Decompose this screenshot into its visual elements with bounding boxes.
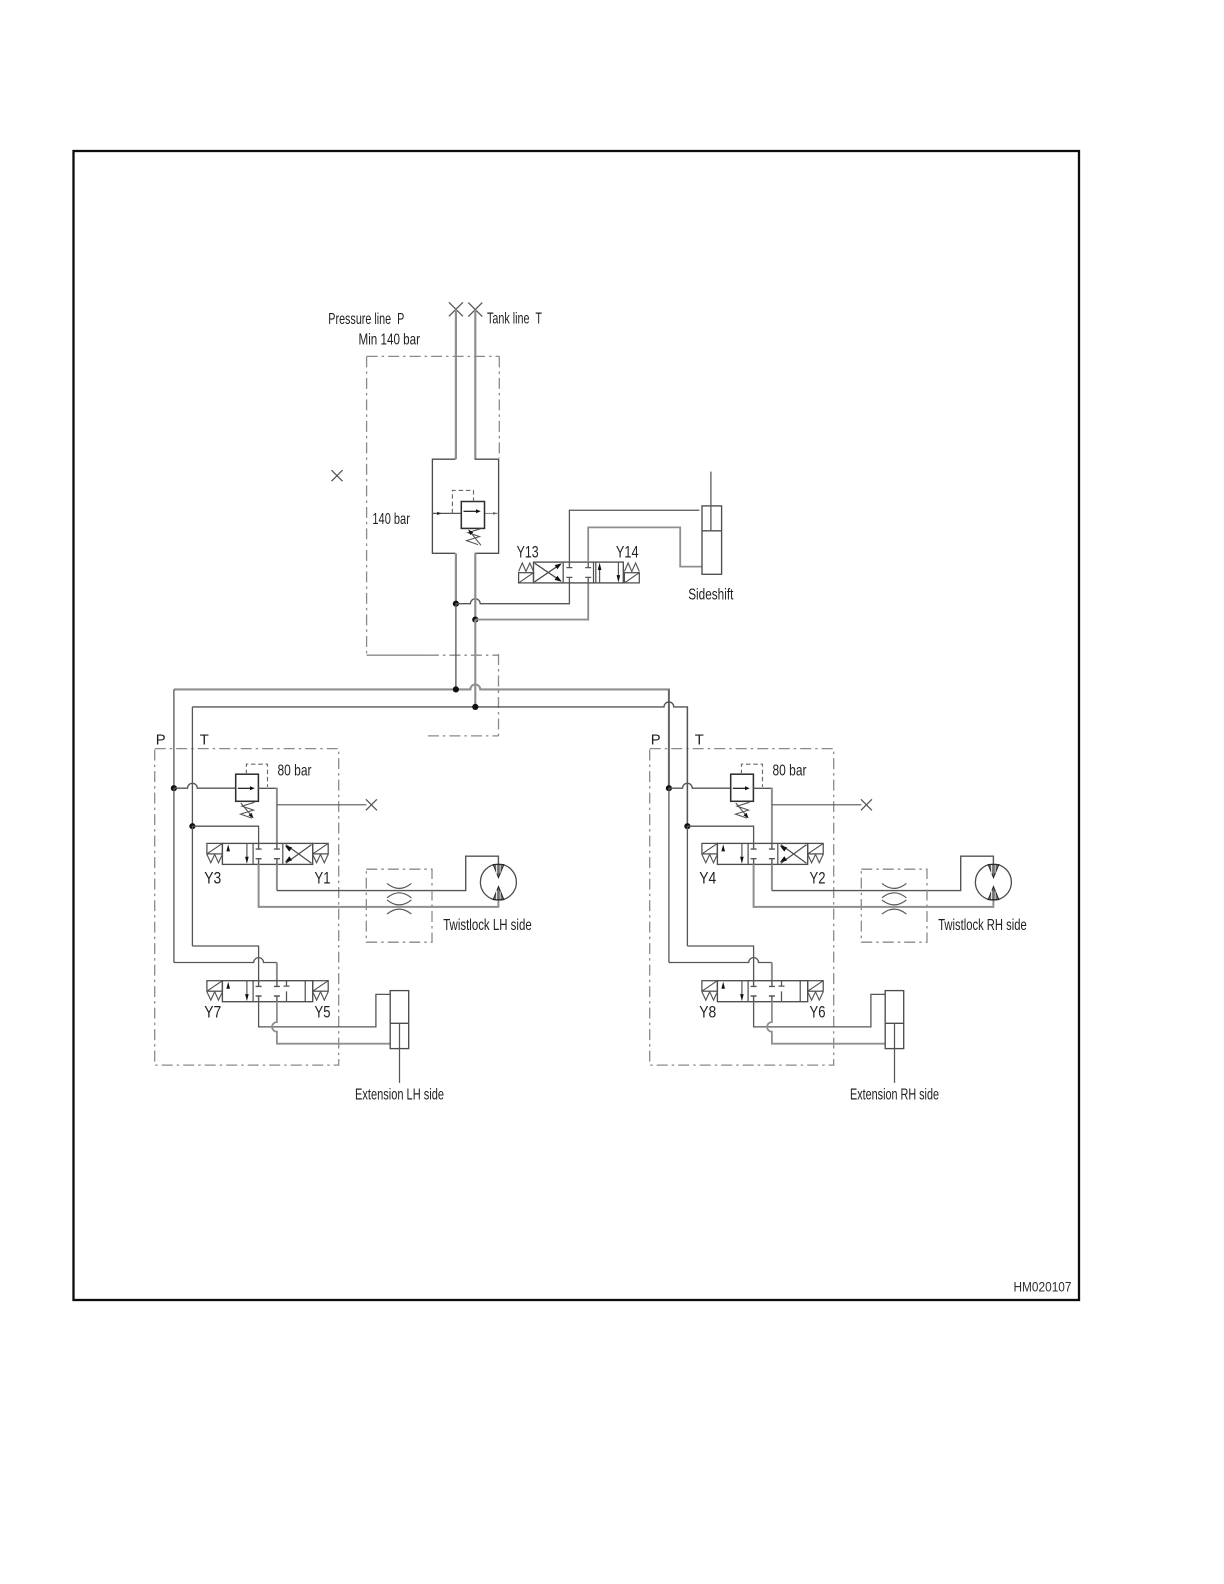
- svg-text:140 bar: 140 bar: [372, 511, 410, 528]
- wire lower valve port to cylinder (upper): [259, 994, 391, 1027]
- valve right section port marks: [284, 981, 290, 1002]
- label Pressure line P: [328, 311, 404, 328]
- extension cylinder piston: [390, 1022, 409, 1024]
- valve divider left: [747, 981, 749, 1002]
- svg-text:Extension LH side: Extension LH side: [355, 1086, 444, 1103]
- svg-text:80 bar: 80 bar: [278, 763, 312, 780]
- orifice on upper line: [882, 883, 906, 897]
- wire P drop into lower valve: [771, 963, 773, 981]
- node T branch: [684, 823, 690, 829]
- pressure relief valve 80 bar square (twistlock LH): [236, 774, 259, 801]
- wire valve to motor (upper): [277, 856, 499, 890]
- Y13/Y14 right box straight flows: [598, 562, 620, 583]
- valve centre box blocked ports: [751, 843, 775, 864]
- wire T down to distribution bus: [474, 620, 476, 707]
- node P branch: [171, 785, 177, 791]
- wire pressure line P down to block: [455, 309, 457, 459]
- label Y8: [699, 1004, 716, 1022]
- solenoid valve body (twistlock): [222, 843, 312, 864]
- wire T to Y13 valve: [475, 583, 588, 620]
- manifold block outline with top/bottom notches: [432, 459, 498, 553]
- relief valve flow arrow: [238, 786, 255, 790]
- valve divider left: [252, 843, 254, 864]
- extension cylinder piston: [885, 1022, 904, 1024]
- wire lower valve port to cylinder (lower, hop around crossing): [767, 1002, 885, 1044]
- valve V1 pilot line (dashed): [452, 490, 473, 513]
- relief valve spring (adjustable): [241, 802, 255, 818]
- valve left box flow arrows: [226, 981, 248, 1001]
- valve centre box blocked ports: [751, 981, 775, 1002]
- svg-text:Y3: Y3: [204, 870, 221, 888]
- wire T branch to valve port A: [687, 826, 753, 843]
- svg-text:Y7: Y7: [204, 1004, 221, 1022]
- wire T riser lower: [686, 826, 688, 946]
- svg-text:Y6: Y6: [810, 1004, 826, 1022]
- label Y14: [616, 544, 639, 562]
- valve divider right: [799, 981, 801, 1002]
- dash-dot enclosure Min 140 bar (bottom edge solid run): [367, 654, 428, 656]
- wire P riser: [668, 689, 670, 788]
- svg-text:T: T: [695, 733, 704, 749]
- cylinder Sideshift rod: [710, 472, 712, 531]
- label Y2: [810, 870, 826, 888]
- wire valve to motor (upper): [772, 856, 994, 890]
- solenoid Y13 (spring above, coil below): [519, 563, 534, 583]
- orifice on lower line: [882, 900, 906, 914]
- capped port X mark left of block: [332, 470, 343, 481]
- relief valve flow arrow: [733, 786, 750, 790]
- dash-dot enclosure Min 140 bar (bottom edge dashed run): [428, 654, 499, 656]
- relief valve pilot line (dashed): [246, 764, 267, 787]
- wire valve to motor (lower): [754, 864, 994, 907]
- valve divider left: [252, 981, 254, 1002]
- wire T riser: [191, 707, 193, 826]
- Y13/Y14 divider double: [594, 562, 596, 583]
- svg-text:P: P: [156, 733, 166, 749]
- node on pressure bus: [453, 686, 459, 692]
- solenoid valve body (extension): [222, 981, 312, 1002]
- wire Y13 port A to sideshift cylinder: [569, 510, 699, 562]
- node on tank bus: [472, 704, 478, 710]
- dash-dot enclosure Min 140 bar (right upper edge): [498, 356, 500, 458]
- capped port X mark: [861, 799, 872, 810]
- label T (twistlock LH block): [200, 733, 209, 749]
- valve centre box blocked ports: [256, 843, 280, 864]
- valve left box flow arrows: [226, 843, 248, 863]
- label Y7: [204, 1004, 221, 1022]
- solenoid coil+spring (right): [313, 843, 329, 862]
- wire T riser lower: [191, 826, 193, 946]
- solenoid coil+spring (right): [313, 981, 329, 1000]
- Y13/Y14 left box crossed arrows: [535, 563, 562, 582]
- svg-text:Y5: Y5: [315, 1004, 331, 1022]
- wire P down to distribution bus: [455, 604, 457, 690]
- label Extension RH side: [850, 1086, 939, 1103]
- wire relief out / down to valve port B: [258, 788, 277, 844]
- cylinder Extension LH body: [390, 991, 409, 1049]
- wire P drop into lower valve: [276, 963, 278, 981]
- wire T below block: [474, 553, 476, 619]
- test line to capped port: [772, 804, 862, 806]
- svg-text:Y4: Y4: [699, 870, 716, 888]
- label P (twistlock RH block): [651, 733, 661, 749]
- cylinder Extension RH body: [885, 991, 904, 1049]
- valve right box crossed arrows: [285, 845, 312, 864]
- valve right section port marks: [779, 981, 785, 1002]
- svg-text:Twistlock LH side: Twistlock LH side: [443, 917, 532, 934]
- wire P riser lower: [668, 788, 670, 962]
- wire relief out / down to valve port B: [753, 788, 772, 844]
- svg-text:Sideshift: Sideshift: [688, 587, 734, 604]
- label Min 140 bar: [359, 331, 421, 348]
- svg-text:P: P: [651, 733, 661, 749]
- extension cylinder rod: [399, 1023, 401, 1083]
- svg-text:HM020107: HM020107: [1014, 1280, 1072, 1295]
- dash-dot enclosure step (right): [498, 654, 500, 736]
- svg-text:Tank line T: Tank line T: [487, 311, 542, 328]
- wire T to lower valve port A: [687, 946, 753, 981]
- valve left box flow arrows: [721, 843, 743, 863]
- pressure reducing valve V1 square: [461, 502, 484, 529]
- label Sideshift: [688, 587, 734, 604]
- motor flow triangle top: [988, 865, 999, 878]
- node T junction to Y13: [472, 617, 478, 623]
- extension cylinder rod: [894, 1023, 896, 1083]
- Y13/Y14 centre box blocked ports: [566, 562, 591, 583]
- drawing number HM020107: [1014, 1280, 1072, 1295]
- solenoid coil+spring (left): [702, 981, 718, 1000]
- svg-text:Y1: Y1: [315, 870, 331, 888]
- dash-dot enclosure Min 140 bar (left edge): [366, 356, 368, 655]
- svg-text:Pressure line P: Pressure line P: [328, 311, 404, 328]
- svg-text:Min 140 bar: Min 140 bar: [359, 331, 421, 348]
- valve divider right: [304, 981, 306, 1002]
- node P branch: [666, 785, 672, 791]
- solenoid coil+spring (left): [207, 981, 223, 1000]
- wire lower valve port to cylinder (upper): [754, 994, 886, 1027]
- wire P riser lower: [173, 788, 175, 962]
- Y13/Y14 divider left: [562, 562, 564, 583]
- node T branch: [189, 823, 195, 829]
- label 80 bar: [278, 763, 312, 780]
- label T (twistlock RH block): [695, 733, 704, 749]
- motor flow triangle top: [493, 865, 504, 878]
- solenoid valve body (extension): [717, 981, 807, 1002]
- dash-dot flow control box: [366, 869, 432, 942]
- solenoid coil+spring (right): [808, 981, 824, 1000]
- label Y6: [810, 1004, 826, 1022]
- wire P to Y13 valve (hops tank line): [456, 583, 570, 604]
- valve divider right: [777, 843, 779, 864]
- pressure bus P (horizontal, hops tank drop): [174, 685, 669, 789]
- wire T riser: [686, 707, 688, 826]
- orifice on upper line: [387, 883, 411, 897]
- port cap X on pressure line P: [449, 302, 463, 316]
- motor flow triangle bottom: [988, 887, 999, 900]
- solenoid coil+spring (left): [207, 843, 223, 862]
- wire P riser: [173, 689, 175, 788]
- label 140 bar: [372, 511, 410, 528]
- label Y5: [315, 1004, 331, 1022]
- wire P below block: [455, 553, 457, 603]
- valve left box flow arrows: [721, 981, 743, 1001]
- pressure relief valve 80 bar square (twistlock RH): [731, 774, 754, 801]
- wire tank line T down to block: [474, 310, 476, 460]
- svg-text:Y2: Y2: [810, 870, 826, 888]
- svg-text:80 bar: 80 bar: [773, 763, 807, 780]
- valve divider right: [282, 843, 284, 864]
- wire P to relief valve (hops T riser): [174, 783, 236, 788]
- valve V1 flow arrow: [464, 509, 481, 513]
- tank bus T (horizontal, hops pressure riser): [192, 702, 687, 826]
- label Y13: [517, 544, 539, 562]
- dash-dot enclosure Min 140 bar (top edge): [367, 355, 500, 357]
- cylinder Sideshift body: [702, 506, 722, 574]
- label Twistlock LH side: [443, 917, 532, 934]
- hydraulic motor twistlock RH: [975, 864, 1011, 900]
- wire Y14 port B to sideshift cylinder: [588, 527, 702, 566]
- solenoid Y14 (spring above, coil below): [624, 563, 639, 583]
- wire P to relief valve (hops T riser): [669, 783, 731, 788]
- orifice on lower line: [387, 900, 411, 914]
- cylinder Sideshift piston: [702, 530, 722, 532]
- wire valve to motor (lower): [259, 864, 499, 907]
- label P (twistlock LH block): [156, 733, 166, 749]
- solenoid valve body (twistlock): [717, 843, 807, 864]
- dash-dot enclosure twistlock RH control block: [650, 749, 834, 1066]
- label Y4: [699, 870, 716, 888]
- solenoid valve Y13/Y14 body: [534, 562, 624, 583]
- relief valve spring (adjustable): [736, 802, 750, 818]
- capped port X mark: [366, 799, 377, 810]
- relief valve pilot line (dashed): [741, 764, 762, 787]
- label Y3: [204, 870, 221, 888]
- solenoid coil+spring (right): [808, 843, 824, 862]
- page border frame: [74, 151, 1080, 1300]
- wire P to lower valve port B (hops T drop): [174, 958, 277, 963]
- valve divider left: [747, 843, 749, 864]
- svg-text:T: T: [200, 733, 209, 749]
- block internal line left with arrow: [432, 512, 461, 515]
- port cap X on tank line T: [468, 303, 482, 317]
- motor flow triangle bottom: [493, 887, 504, 900]
- test line to capped port: [277, 804, 367, 806]
- valve right box crossed arrows: [780, 845, 807, 864]
- label 80 bar: [773, 763, 807, 780]
- svg-text:Y13: Y13: [517, 544, 539, 562]
- wire T to lower valve port A: [192, 946, 258, 981]
- solenoid coil+spring (left): [702, 843, 718, 862]
- dash-dot flow control box: [861, 869, 927, 942]
- node P junction to Y13: [453, 601, 459, 607]
- label Tank line T: [487, 311, 542, 328]
- label Extension LH side: [355, 1086, 444, 1103]
- svg-text:Twistlock RH side: Twistlock RH side: [938, 917, 1027, 934]
- valve centre box blocked ports: [256, 981, 280, 1002]
- label Y1: [315, 870, 331, 888]
- wire lower valve port to cylinder (lower, hop around crossing): [272, 1002, 390, 1044]
- hydraulic motor twistlock LH: [480, 864, 516, 900]
- valve V1 spring (adjustable): [467, 529, 482, 546]
- block internal line right with arrow: [485, 512, 499, 515]
- svg-text:Y14: Y14: [616, 544, 639, 562]
- wire T branch to valve port A: [192, 826, 258, 843]
- dash-dot enclosure twistlock LH control block: [155, 749, 339, 1066]
- svg-text:Y8: Y8: [699, 1004, 716, 1022]
- svg-text:Extension RH side: Extension RH side: [850, 1086, 939, 1103]
- dash-dot enclosure step (bottom): [428, 735, 499, 737]
- label Twistlock RH side: [938, 917, 1027, 934]
- wire P to lower valve port B (hops T drop): [669, 958, 772, 963]
